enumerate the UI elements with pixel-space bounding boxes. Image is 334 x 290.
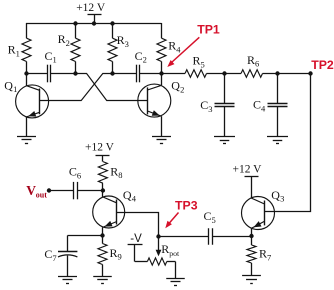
svg-text:TP2: TP2: [311, 58, 334, 72]
capacitor C6: [49, 165, 103, 200]
ground under Q2: [152, 137, 171, 144]
svg-text:TP1: TP1: [197, 23, 220, 37]
transistor Q4: [93, 188, 137, 236]
ground under Q1: [17, 137, 36, 144]
svg-text:R: R: [110, 164, 118, 178]
svg-text:4: 4: [132, 194, 137, 204]
ground under R7: [242, 276, 261, 284]
ground under R9: [93, 277, 112, 284]
resistor R2: [58, 21, 80, 73]
node C4 top: [275, 71, 279, 75]
node Q1 collector: [24, 71, 28, 75]
svg-text:R: R: [168, 39, 176, 53]
transistor Q2: [138, 73, 185, 136]
svg-text:+12 V: +12 V: [85, 141, 115, 153]
label TP2: [311, 58, 334, 72]
wire Q4 base to node: [117, 213, 159, 237]
potentiometer wiper: [156, 237, 162, 257]
svg-text:Q: Q: [4, 78, 13, 92]
+12V supply mid: [85, 141, 115, 161]
svg-text:Q: Q: [171, 79, 180, 93]
label TP1: [197, 23, 220, 37]
svg-text:Q: Q: [271, 188, 280, 202]
wire cross-couple to Q1 base: [40, 74, 113, 101]
resistor R9: [98, 236, 122, 277]
svg-text:TP3: TP3: [175, 199, 198, 213]
node Q4 base / C5 / wiper: [156, 234, 160, 238]
node R8 bottom / Q4 collector: [101, 188, 105, 192]
resistor R4: [157, 23, 181, 73]
transistor Q1: [4, 73, 48, 136]
svg-text:+12 V: +12 V: [233, 163, 263, 175]
node TP1 / Q2 collector: [159, 71, 163, 75]
svg-text:3: 3: [125, 39, 129, 49]
transistor Q3: [242, 188, 285, 236]
svg-text:+12 V: +12 V: [76, 2, 106, 14]
svg-text:R: R: [110, 246, 118, 260]
svg-text:C: C: [204, 209, 212, 223]
svg-text:out: out: [36, 191, 47, 200]
svg-text:1: 1: [16, 48, 20, 58]
svg-text:2: 2: [143, 55, 147, 65]
svg-text:C: C: [69, 165, 77, 179]
svg-text:1: 1: [13, 84, 17, 94]
node Q2 base net: [73, 71, 77, 75]
svg-text:9: 9: [118, 252, 122, 262]
ground under C7: [58, 277, 77, 284]
svg-text:2: 2: [180, 84, 184, 94]
capacitor C3: [200, 73, 234, 136]
ground under Rpot: [166, 279, 185, 286]
svg-text:3: 3: [280, 194, 284, 204]
node Q4 emitter: [100, 233, 104, 237]
svg-text:C: C: [44, 247, 52, 261]
svg-text:6: 6: [77, 170, 81, 180]
svg-text:C: C: [253, 98, 261, 112]
+12V supply top: [76, 2, 106, 26]
svg-text:C: C: [135, 49, 143, 63]
svg-text:R: R: [193, 54, 201, 68]
svg-text:6: 6: [255, 59, 259, 69]
resistor R7: [247, 236, 271, 276]
resistor R1: [8, 23, 31, 73]
svg-text:R: R: [161, 242, 169, 256]
svg-text:C: C: [45, 49, 53, 63]
TP1 arrow: [167, 37, 199, 67]
wire Q4 emitter to C7: [68, 235, 103, 237]
node Q3 emitter: [249, 234, 253, 238]
capacitor C5: [159, 209, 252, 245]
capacitor C7: [44, 236, 77, 277]
svg-text:-V: -V: [130, 233, 142, 245]
capacitor C2: [112, 49, 162, 82]
svg-text:R: R: [259, 247, 267, 261]
potentiometer Rpot: [147, 242, 180, 278]
label TP3: [175, 199, 198, 213]
svg-text:Q: Q: [123, 188, 132, 202]
svg-text:1: 1: [53, 55, 57, 65]
ground under C4: [267, 137, 288, 144]
svg-text:R: R: [8, 43, 16, 57]
capacitor C4: [253, 73, 288, 136]
svg-text:R: R: [117, 33, 125, 47]
label Vout: [26, 183, 47, 200]
svg-text:C: C: [200, 98, 208, 112]
resistor R8: [98, 162, 122, 191]
wire top rail: [26, 23, 162, 25]
svg-text:8: 8: [118, 170, 122, 180]
resistor R5: [162, 54, 225, 78]
TP3 arrow: [165, 213, 178, 229]
svg-text:R: R: [58, 32, 66, 46]
svg-text:7: 7: [52, 253, 56, 263]
-V supply: [128, 233, 148, 262]
node Vout: [47, 188, 51, 192]
svg-text:4: 4: [176, 44, 181, 54]
svg-text:5: 5: [212, 215, 216, 225]
node TP2: [308, 71, 312, 75]
svg-text:5: 5: [201, 59, 205, 69]
wire cross-couple to Q2 base: [76, 74, 148, 101]
ground under C3: [214, 137, 235, 144]
resistor R3: [108, 21, 129, 73]
svg-text:4: 4: [261, 104, 266, 114]
wire TP2 to Q3 base: [265, 74, 311, 212]
+12V supply right: [233, 163, 263, 198]
svg-text:3: 3: [208, 104, 212, 114]
capacitor C1: [26, 49, 76, 82]
svg-text:2: 2: [66, 38, 70, 48]
svg-text:R: R: [247, 53, 255, 67]
resistor R6: [225, 53, 312, 77]
node C3 top: [222, 71, 226, 75]
svg-text:V: V: [26, 183, 36, 198]
node Q1 base net: [110, 71, 114, 75]
svg-text:7: 7: [267, 253, 271, 263]
svg-text:pot: pot: [169, 249, 180, 258]
